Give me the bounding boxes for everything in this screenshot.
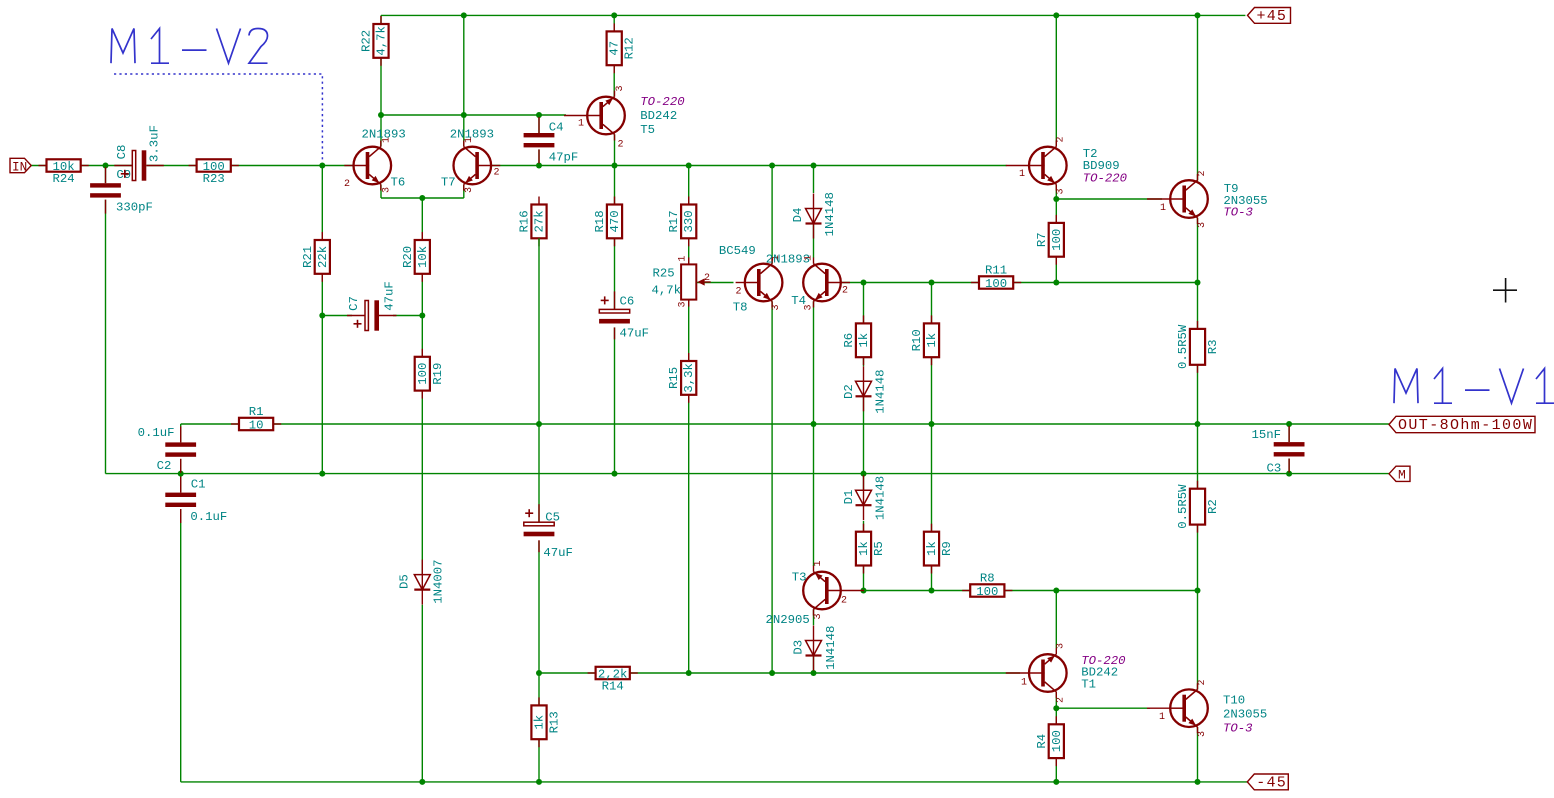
wire R8 rail to T1 emitter bbox=[1055, 591, 1057, 649]
wire R8 to output columns bbox=[1004, 590, 1197, 592]
svg-text:T3: T3 bbox=[792, 571, 807, 585]
svg-text:OUT-8Ohm-100W: OUT-8Ohm-100W bbox=[1398, 417, 1533, 434]
wire C5 to R14 node bbox=[538, 541, 540, 673]
svg-text:0.1uF: 0.1uF bbox=[190, 510, 227, 524]
transistor T6 2N1893 bbox=[344, 141, 391, 191]
junction T8 emitter/R14 rail bbox=[769, 670, 775, 676]
wire T5 collector to main rail bbox=[614, 134, 616, 165]
resistor R23 100 bbox=[189, 159, 239, 171]
wire R4 to bottom rail bbox=[1055, 758, 1057, 782]
sheet name M1-V1 (blue vector text) bbox=[1394, 369, 1554, 404]
wire D4 to T4 collector bbox=[813, 224, 815, 258]
svg-text:R6: R6 bbox=[842, 333, 856, 348]
svg-text:C5: C5 bbox=[545, 511, 560, 525]
svg-text:D3: D3 bbox=[791, 640, 805, 655]
svg-text:R10: R10 bbox=[910, 329, 924, 351]
capacitor C2 0.1uF bbox=[165, 426, 196, 472]
junction T2 emitter/R7 bbox=[1053, 196, 1059, 202]
resistor R19 100 bbox=[415, 349, 430, 399]
svg-text:C2: C2 bbox=[157, 459, 172, 473]
svg-text:1k: 1k bbox=[857, 333, 871, 348]
wire input rail IN to T6 base bbox=[31, 165, 354, 167]
wire main rail T7 base to T2 base bbox=[490, 165, 1006, 167]
svg-text:M: M bbox=[1398, 468, 1406, 483]
junction C7 right bbox=[419, 313, 425, 319]
transistor T1 BD242 bbox=[1006, 648, 1067, 698]
svg-text:TO-220: TO-220 bbox=[640, 95, 684, 109]
svg-text:R15: R15 bbox=[667, 367, 681, 389]
wire T3 collector to D3 bbox=[813, 609, 815, 625]
wire R20 to R19 bbox=[421, 274, 423, 356]
svg-text:100: 100 bbox=[976, 585, 998, 599]
junction R15/R14 rail bbox=[686, 670, 692, 676]
sheet outline dotted line for M1-V2 bbox=[114, 74, 322, 162]
junction T1 collector/R4 bbox=[1053, 705, 1059, 711]
junction OUT rail/C5 bbox=[536, 421, 542, 427]
svg-text:47uF: 47uF bbox=[543, 546, 573, 560]
transistor T7 2N1893 bbox=[454, 141, 501, 191]
svg-text:C1: C1 bbox=[191, 478, 206, 492]
svg-text:R11: R11 bbox=[985, 264, 1007, 278]
resistor R16 27k bbox=[531, 197, 546, 247]
wire OUT rail (node A) bbox=[273, 423, 1389, 425]
wire R21 to C7 and M rail bbox=[321, 274, 323, 474]
svg-text:2: 2 bbox=[1056, 136, 1067, 142]
svg-text:100: 100 bbox=[1050, 229, 1064, 251]
junction T9 emitter/R3 bbox=[1195, 280, 1201, 286]
svg-text:R8: R8 bbox=[980, 572, 995, 586]
black origin cross marker bbox=[1493, 278, 1517, 303]
transistor T5 BD242 bbox=[564, 91, 625, 141]
wire R22 to T6 collector bbox=[380, 58, 382, 147]
wire D2 to M rail bbox=[863, 397, 865, 473]
resistor R14 2,2k bbox=[588, 667, 638, 679]
svg-text:R7: R7 bbox=[1035, 232, 1049, 247]
junction M rail/D2-D1 bbox=[861, 471, 867, 477]
junction T8 collector node bbox=[769, 163, 775, 169]
svg-text:T7: T7 bbox=[441, 176, 456, 190]
resistor R20 10k bbox=[415, 232, 430, 282]
svg-text:R12: R12 bbox=[623, 37, 637, 59]
junction C7 left bbox=[319, 313, 325, 319]
svg-text:D2: D2 bbox=[842, 384, 856, 399]
wire main rail to T8 collector bbox=[771, 166, 773, 264]
junction bottom rail/T10 bbox=[1195, 779, 1201, 785]
junction OUT rail/C3 top bbox=[1286, 421, 1292, 427]
wire T3 base to R8 bbox=[864, 590, 971, 592]
svg-text:47uF: 47uF bbox=[620, 327, 650, 341]
svg-text:C4: C4 bbox=[549, 121, 564, 135]
diode D3 1N4148 bbox=[806, 626, 822, 671]
wire node to R3 bbox=[1197, 283, 1199, 329]
svg-text:4,7k: 4,7k bbox=[375, 26, 389, 56]
junction R21/T6 base node bbox=[319, 163, 325, 169]
power flag +45 bbox=[1248, 8, 1291, 24]
svg-text:+45: +45 bbox=[1257, 8, 1288, 25]
svg-text:1: 1 bbox=[1019, 169, 1025, 180]
resistor R13 1k bbox=[531, 697, 546, 747]
capacitor C8 3.3uF polarized bbox=[114, 150, 164, 180]
svg-text:2: 2 bbox=[1055, 697, 1066, 703]
svg-text:1k: 1k bbox=[925, 541, 939, 556]
svg-text:R24: R24 bbox=[53, 172, 75, 186]
wire R10 to R9 through OUT rail bbox=[931, 357, 933, 532]
wire T7 emitter down bbox=[463, 185, 465, 199]
wire node to R13 bbox=[538, 673, 540, 705]
svg-text:C3: C3 bbox=[1267, 462, 1282, 476]
wire +45 to T2 collector bbox=[1055, 15, 1057, 146]
resistor R1 10 bbox=[231, 418, 281, 430]
svg-text:T5: T5 bbox=[640, 123, 655, 137]
wire C9 to M rail bbox=[105, 197, 107, 473]
svg-text:2N3055: 2N3055 bbox=[1223, 708, 1267, 722]
svg-text:3: 3 bbox=[1055, 643, 1066, 649]
svg-text:330pF: 330pF bbox=[116, 201, 153, 215]
wire T2 emitter down bbox=[1055, 185, 1057, 200]
resistor R7 100 bbox=[1049, 215, 1064, 265]
svg-text:1: 1 bbox=[381, 137, 392, 143]
wire C5/R13 node to R14 bbox=[539, 672, 596, 674]
wire T1 collector to R4 bbox=[1055, 692, 1057, 724]
svg-text:3: 3 bbox=[678, 301, 689, 307]
wire R14 to T1 base bbox=[630, 672, 1020, 674]
resistor R11 100 bbox=[971, 276, 1021, 288]
potentiometer R25 4,7k bbox=[681, 257, 711, 306]
resistor R15 3,3k bbox=[681, 353, 696, 403]
capacitor C6 47uF polarized bbox=[599, 291, 630, 339]
svg-text:D1: D1 bbox=[842, 490, 856, 505]
svg-text:3: 3 bbox=[464, 187, 475, 193]
svg-text:R16: R16 bbox=[518, 210, 532, 232]
capacitor C3 15nF bbox=[1274, 426, 1305, 472]
svg-text:R19: R19 bbox=[431, 363, 445, 385]
resistor R24 10k bbox=[39, 159, 89, 171]
svg-text:BD242: BD242 bbox=[640, 109, 677, 123]
svg-text:15nF: 15nF bbox=[1252, 428, 1282, 442]
wire C3 to M rail bbox=[1288, 457, 1290, 474]
wire C4 to main rail bbox=[538, 147, 540, 166]
resistor R10 1k bbox=[924, 315, 939, 365]
transistor T9 2N3055 bbox=[1147, 174, 1208, 224]
wire D5 to bottom rail bbox=[421, 605, 423, 782]
junction top rail/T7 bbox=[461, 12, 467, 18]
svg-text:47pF: 47pF bbox=[549, 151, 579, 165]
junction T4 base/R6 bbox=[861, 280, 867, 286]
wire C1 down to bottom rail bbox=[180, 507, 182, 782]
transistor T8 BC549 bbox=[736, 258, 783, 308]
junction top rail/T2 bbox=[1053, 12, 1059, 18]
junction D4 node bbox=[811, 163, 817, 169]
wire upper rail to T5 base bbox=[381, 114, 566, 116]
junction R8 rail/T1 emitter bbox=[1053, 588, 1059, 594]
wire main rail to R17 bbox=[688, 166, 690, 205]
svg-text:C7: C7 bbox=[347, 296, 361, 311]
resistor R21 22k bbox=[315, 232, 330, 282]
svg-text:27k: 27k bbox=[533, 210, 547, 232]
svg-text:100: 100 bbox=[416, 363, 430, 385]
wire node to R21 bbox=[321, 166, 323, 241]
wire C7 left lead bbox=[322, 315, 352, 317]
wire top rail to R22 bbox=[380, 15, 382, 24]
wire OUT rail down to R2 bbox=[1197, 424, 1199, 489]
port flag M bbox=[1389, 466, 1410, 481]
junction bottom rail/R4 bbox=[1053, 779, 1059, 785]
capacitor C4 47pF bbox=[524, 117, 555, 163]
svg-text:1k: 1k bbox=[925, 333, 939, 348]
svg-text:R13: R13 bbox=[548, 711, 562, 733]
wire R8 rail to T10 collector bbox=[1197, 591, 1199, 690]
wire R2 to R8 rail bbox=[1197, 524, 1199, 591]
svg-text:R5: R5 bbox=[872, 541, 886, 556]
svg-text:2: 2 bbox=[344, 179, 350, 190]
junction OUT rail/R10-R9 bbox=[929, 421, 935, 427]
capacitor C7 47uF polarized bbox=[347, 300, 397, 330]
junction R7/R11 bbox=[1053, 280, 1059, 286]
svg-text:2: 2 bbox=[842, 286, 848, 297]
svg-text:1: 1 bbox=[1160, 203, 1166, 214]
junction M rail/C6 bbox=[612, 471, 618, 477]
svg-text:TO-3: TO-3 bbox=[1223, 206, 1253, 220]
svg-text:BC549: BC549 bbox=[719, 244, 756, 258]
diode D4 1N4148 bbox=[806, 194, 822, 239]
resistor R5 1k bbox=[856, 524, 871, 574]
svg-text:2: 2 bbox=[1197, 170, 1208, 176]
svg-text:100: 100 bbox=[1050, 730, 1064, 752]
resistor R4 100 bbox=[1049, 716, 1064, 766]
svg-text:1: 1 bbox=[803, 255, 814, 261]
wire +45 to T9 collector bbox=[1197, 15, 1199, 180]
svg-text:D4: D4 bbox=[791, 208, 805, 223]
resistor R17 330 bbox=[681, 197, 696, 247]
svg-text:2: 2 bbox=[841, 596, 847, 607]
svg-text:3.3uF: 3.3uF bbox=[148, 125, 162, 162]
wire R16 down to OUT rail bbox=[538, 238, 540, 424]
svg-text:2: 2 bbox=[1197, 679, 1208, 685]
wire T2 emitter to R7 bbox=[1055, 199, 1057, 223]
wire T1 collector to T10 base bbox=[1056, 707, 1150, 709]
svg-text:R3: R3 bbox=[1206, 339, 1220, 354]
junction top rail/T9 bbox=[1195, 12, 1201, 18]
transistor T3 2N2905 bbox=[803, 566, 864, 616]
wire R15 down to R14 node bbox=[688, 395, 690, 673]
junction M rail/R21 column bbox=[319, 471, 325, 477]
junction input node bbox=[103, 163, 109, 169]
svg-text:R9: R9 bbox=[940, 541, 954, 556]
resistor R22 4,7k bbox=[373, 16, 388, 66]
junction bottom rail/R13 bbox=[536, 779, 542, 785]
resistor R3 0.5R5W bbox=[1190, 321, 1205, 373]
junction emitter rail bbox=[419, 195, 425, 201]
svg-text:47: 47 bbox=[608, 41, 622, 56]
svg-text:1k: 1k bbox=[857, 541, 871, 556]
junction D3/R14 rail bbox=[811, 670, 817, 676]
wire OUT rail to C5 bbox=[538, 424, 540, 522]
wire R6 to D2 bbox=[863, 357, 865, 366]
junction top rail/R12 bbox=[611, 12, 617, 18]
junction M rail/C2-C1 bbox=[178, 471, 184, 477]
junction R2/T10 collector bbox=[1195, 588, 1201, 594]
svg-text:D5: D5 bbox=[398, 574, 412, 589]
svg-text:R18: R18 bbox=[593, 210, 607, 232]
svg-text:2: 2 bbox=[618, 140, 624, 151]
resistor R12 47 bbox=[607, 23, 622, 73]
wire R5 to T3 base node bbox=[863, 566, 865, 591]
wire M rail to D1 bbox=[863, 474, 865, 491]
svg-text:1N4148: 1N4148 bbox=[824, 626, 838, 670]
junction OUT rail/R3-R2 bbox=[1195, 421, 1201, 427]
svg-text:R20: R20 bbox=[401, 246, 415, 268]
wire R11 to T9 emitter node bbox=[1013, 282, 1197, 284]
svg-text:1N4148: 1N4148 bbox=[873, 369, 887, 413]
svg-text:3: 3 bbox=[771, 304, 782, 310]
svg-text:2: 2 bbox=[704, 273, 710, 284]
power flag -45 bbox=[1247, 774, 1288, 790]
svg-text:3: 3 bbox=[1056, 188, 1067, 194]
junction R10 top bbox=[929, 280, 935, 286]
wire R18 to C6 bbox=[614, 238, 616, 309]
svg-text:1: 1 bbox=[464, 137, 475, 143]
svg-text:2: 2 bbox=[736, 287, 742, 298]
wire D3 to R14 node bbox=[813, 656, 815, 673]
capacitor C9 330pF bbox=[90, 167, 121, 213]
svg-text:R21: R21 bbox=[301, 246, 315, 268]
svg-text:-45: -45 bbox=[1256, 775, 1287, 792]
wire node to R10 bbox=[931, 283, 933, 324]
svg-text:3: 3 bbox=[615, 85, 626, 91]
junction C5/R13/R14 bbox=[536, 670, 542, 676]
svg-text:10k: 10k bbox=[416, 246, 430, 268]
svg-text:22k: 22k bbox=[316, 246, 330, 268]
diode D2 1N4148 bbox=[856, 366, 872, 411]
wire C2 to C1 bbox=[180, 457, 182, 493]
svg-text:R23: R23 bbox=[203, 172, 225, 186]
junction C4 top bbox=[536, 112, 542, 118]
junction R17 node bbox=[686, 163, 692, 169]
svg-text:1: 1 bbox=[578, 119, 584, 130]
svg-text:1: 1 bbox=[1159, 712, 1165, 723]
wire R12 to T5 emitter bbox=[613, 65, 615, 96]
wire R1 corner down to C2 bbox=[180, 424, 182, 443]
svg-text:R17: R17 bbox=[667, 210, 681, 232]
svg-text:0.5R5W: 0.5R5W bbox=[1176, 484, 1190, 529]
wire main rail to D4 bbox=[813, 166, 815, 194]
capacitor C5 47uF polarized bbox=[524, 504, 555, 552]
diode D1 1N4148 bbox=[856, 475, 872, 520]
svg-text:2N2905: 2N2905 bbox=[766, 613, 810, 627]
output port flag OUT-8Ohm-100W bbox=[1389, 416, 1535, 432]
resistor R9 1k bbox=[924, 524, 939, 574]
svg-text:C8: C8 bbox=[115, 145, 129, 160]
wire T4 emitter down to T3 emitter bbox=[813, 301, 815, 566]
svg-text:1: 1 bbox=[813, 560, 824, 566]
svg-text:R4: R4 bbox=[1035, 734, 1049, 749]
wire OUT rail to C3 bbox=[1288, 424, 1290, 442]
wire R17 to R25 bbox=[688, 238, 690, 264]
svg-text:R2: R2 bbox=[1206, 499, 1220, 514]
svg-text:C9: C9 bbox=[116, 168, 131, 182]
svg-text:3: 3 bbox=[381, 187, 392, 193]
svg-text:3: 3 bbox=[803, 304, 814, 310]
wire D1 to R5 bbox=[863, 521, 865, 532]
wire T4 base to R11 bbox=[831, 282, 980, 284]
svg-text:1N4007: 1N4007 bbox=[432, 559, 446, 603]
wire T4 base node to R6 bbox=[863, 283, 865, 324]
junction T5 collector node bbox=[612, 163, 618, 169]
junction M rail/C3 bottom bbox=[1286, 471, 1292, 477]
svg-text:R14: R14 bbox=[602, 680, 624, 694]
svg-text:3: 3 bbox=[813, 613, 824, 619]
svg-text:TO-220: TO-220 bbox=[1083, 172, 1127, 186]
svg-text:47uF: 47uF bbox=[383, 281, 397, 311]
wire T9 emitter down bbox=[1197, 218, 1199, 283]
wire -45 bottom rail bbox=[181, 781, 1248, 783]
junction OUT rail/T4 emitter bbox=[811, 421, 817, 427]
junction T3 base/R5 bbox=[861, 588, 867, 594]
wire M rail (node B) bbox=[106, 473, 1390, 475]
wire R19 down to D5 bbox=[421, 391, 423, 575]
svg-text:TO-3: TO-3 bbox=[1223, 722, 1253, 736]
wire R9 to R8 rail bbox=[931, 566, 933, 591]
wire T6/T7 emitter rail bbox=[381, 197, 464, 199]
junction bottom rail/D5 bbox=[419, 779, 425, 785]
junction T7 collector bbox=[461, 112, 467, 118]
wire R1 left lead bbox=[181, 423, 239, 425]
wire R25 to R15 bbox=[688, 300, 690, 361]
svg-text:10: 10 bbox=[249, 418, 264, 432]
wire T2 emitter to T9 base bbox=[1056, 198, 1162, 200]
input port flag IN bbox=[10, 158, 31, 172]
svg-text:1N4148: 1N4148 bbox=[873, 476, 887, 520]
wire top rail to R12 bbox=[613, 15, 615, 31]
svg-text:1: 1 bbox=[678, 256, 689, 262]
wire emitters to R20 bbox=[421, 198, 423, 240]
svg-text:330: 330 bbox=[682, 210, 696, 232]
svg-text:C6: C6 bbox=[620, 295, 635, 309]
svg-text:T8: T8 bbox=[733, 301, 748, 315]
svg-text:3: 3 bbox=[1197, 731, 1208, 737]
capacitor C1 0.1uF bbox=[165, 477, 196, 523]
svg-text:IN: IN bbox=[12, 159, 27, 174]
wire C7 right lead bbox=[393, 315, 422, 317]
junction C4/main rail bbox=[536, 163, 542, 169]
svg-text:R1: R1 bbox=[249, 405, 264, 419]
transistor T10 2N3055 bbox=[1147, 683, 1208, 733]
wire T8 emitter down to R14 node bbox=[771, 301, 773, 673]
wire top rail to T7 collector bbox=[463, 15, 465, 146]
resistor R6 1k bbox=[856, 315, 871, 365]
junction R22/T6 collector bbox=[378, 112, 384, 118]
wire T10 emitter to bottom rail bbox=[1197, 727, 1199, 782]
wire R7 to R11 node bbox=[1055, 257, 1057, 283]
svg-text:R25: R25 bbox=[653, 267, 675, 281]
svg-text:3: 3 bbox=[1197, 222, 1208, 228]
transistor T4 2N1893 bbox=[803, 258, 850, 308]
svg-text:4,7k: 4,7k bbox=[652, 284, 682, 298]
svg-text:2: 2 bbox=[494, 168, 500, 179]
svg-text:1N4148: 1N4148 bbox=[823, 192, 837, 236]
transistor T2 BD909 bbox=[1006, 141, 1067, 191]
svg-text:3,3k: 3,3k bbox=[682, 363, 696, 393]
resistor R2 0.5R5W bbox=[1190, 481, 1205, 533]
resistor R18 470 bbox=[607, 197, 622, 247]
junction R9/R8 rail bbox=[929, 588, 935, 594]
svg-text:100: 100 bbox=[985, 277, 1007, 291]
wire R13 to bottom rail bbox=[538, 739, 540, 782]
svg-text:T10: T10 bbox=[1223, 694, 1245, 708]
svg-text:0.5R5W: 0.5R5W bbox=[1176, 324, 1190, 369]
sheet name M1-V2 (blue vector text) bbox=[111, 29, 268, 64]
wire junction to C9 bbox=[105, 166, 107, 184]
